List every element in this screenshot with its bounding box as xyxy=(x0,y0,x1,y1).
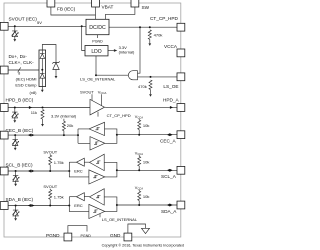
wires SCL right joins xyxy=(104,162,117,177)
svg-text:Copyright © 2016, Texas Instru: Copyright © 2016, Texas Instruments Inco… xyxy=(102,244,184,248)
direction arrows SCL_A xyxy=(167,169,170,172)
wire SCL_B xyxy=(8,170,69,172)
HDMI ESD clamp box U-clamp xyxy=(39,50,46,87)
ESD clamp D5 on SCL_B xyxy=(12,170,19,186)
pin SDA_A xyxy=(177,201,185,209)
pin LS_OE xyxy=(177,73,185,81)
pin VBAT xyxy=(92,0,100,7)
svg-text:GND: GND xyxy=(110,233,121,238)
svg-text:LS_OE_INTERNAL: LS_OE_INTERNAL xyxy=(80,76,116,81)
resistor 11k pulldown xyxy=(41,109,44,119)
wires SDA right joins xyxy=(104,197,117,212)
direction arrows CEC_B xyxy=(28,134,31,137)
svg-text:SDA_B (IEC): SDA_B (IEC) xyxy=(6,197,34,202)
buffer U9 SDA ERC xyxy=(76,193,84,201)
svg-text:SCL_A: SCL_A xyxy=(161,174,177,179)
ESD clamp D3 on HPD_B xyxy=(12,107,19,123)
svg-text:VBAT: VBAT xyxy=(102,5,114,10)
svg-text:LDO: LDO xyxy=(91,49,101,55)
svg-text:DC/DC: DC/DC xyxy=(89,25,106,31)
block DC/DC xyxy=(86,19,109,34)
wire SDA_A xyxy=(117,204,177,206)
pin CEC_A xyxy=(177,131,185,139)
svg-text:CT_CP_HPD: CT_CP_HPD xyxy=(150,16,178,21)
wire HPD_B xyxy=(8,107,90,109)
direction arrows SCL_B xyxy=(28,170,31,173)
junction mid clamp xyxy=(41,69,43,71)
buffer U10 SDA A-to-B xyxy=(84,189,104,205)
svg-text:1.75k: 1.75k xyxy=(54,195,65,200)
zener D2 xyxy=(52,61,59,63)
riser CEC left xyxy=(77,134,79,136)
wire AND input from CT_CP_HPD rail xyxy=(138,27,141,73)
buffer U5 CEC B-to-A xyxy=(78,137,105,150)
buffer U4 CEC A-to-B xyxy=(78,122,105,135)
wire GND to ground xyxy=(128,224,146,233)
pin FB (IEC) xyxy=(47,0,55,7)
wire AND input from LS_OE pin xyxy=(138,76,178,78)
svg-text:VCCA: VCCA xyxy=(98,89,107,95)
svg-text:PGND: PGND xyxy=(46,233,60,238)
wires CEC right joins xyxy=(105,129,117,143)
buffer U7 SCL A-to-B xyxy=(84,154,104,170)
diode top in clamp xyxy=(40,50,45,54)
svg-text:CEC_A: CEC_A xyxy=(160,138,177,143)
svg-text:470k: 470k xyxy=(154,32,164,37)
ESD clamp D6 on SDA_B xyxy=(12,205,19,221)
wire CT_CP_HPD rail xyxy=(109,26,177,28)
svg-text:ERC: ERC xyxy=(74,203,83,208)
riser SDA left xyxy=(68,205,70,207)
svg-text:ESD Clamp: ESD Clamp xyxy=(15,82,37,87)
diode bottom in clamp xyxy=(40,70,45,74)
direction arrow HPD_A xyxy=(170,106,173,109)
svg-text:1.75k: 1.75k xyxy=(54,160,65,165)
svg-text:CLK+, CLK-: CLK+, CLK- xyxy=(9,60,35,65)
svg-text:HPD_A: HPD_A xyxy=(163,98,180,103)
junction 20k xyxy=(63,134,65,136)
resistor 470k LS_OE xyxy=(149,80,152,90)
wire HPD_A xyxy=(105,106,178,108)
svg-text:PGND: PGND xyxy=(92,40,103,44)
pin SW xyxy=(131,0,139,7)
svg-text:SW: SW xyxy=(142,5,150,10)
svg-text:10k: 10k xyxy=(143,194,151,199)
node LS_OE_INTERNAL xyxy=(95,74,97,76)
direction arrows SDA_A xyxy=(167,204,170,207)
svg-text:(IEC) HDMI: (IEC) HDMI xyxy=(16,77,37,82)
svg-text:SCL_B (IEC): SCL_B (IEC) xyxy=(6,163,34,168)
block LDO xyxy=(85,46,108,56)
svg-text:SVOUT: SVOUT xyxy=(43,149,57,154)
svg-text:11k: 11k xyxy=(31,110,38,115)
pin SCL_A xyxy=(177,166,185,174)
direction arrows CEC_A xyxy=(167,133,170,136)
junction LS_OE pulldown xyxy=(150,76,152,78)
direction arrows SDA_B xyxy=(28,204,31,207)
svg-text:LS_OE_INTERNAL: LS_OE_INTERNAL xyxy=(102,217,138,222)
svg-text:PGND: PGND xyxy=(81,234,92,238)
svg-text:(x8): (x8) xyxy=(30,90,38,95)
svg-text:20k: 20k xyxy=(67,123,75,128)
svg-text:470k: 470k xyxy=(138,84,148,89)
svg-text:SVOUT: SVOUT xyxy=(80,89,94,94)
svg-text:SVOUT (IEC): SVOUT (IEC) xyxy=(9,16,38,21)
AND gate U2 (points left) xyxy=(128,71,137,80)
wire SW to DC/DC xyxy=(105,7,134,19)
enable stub CT_CP_HPD xyxy=(97,112,99,117)
buffer U3 HPD xyxy=(90,99,105,115)
buffer U11 SDA B-to-A xyxy=(89,204,105,218)
wire 5V to LDO xyxy=(82,26,85,50)
net stub PGND under DC/DC xyxy=(97,35,99,38)
svg-text:CEC_B (IEC): CEC_B (IEC) xyxy=(6,128,34,133)
wire clamp top to zener xyxy=(42,45,56,63)
svg-text:CT_CP_HPD: CT_CP_HPD xyxy=(107,113,131,118)
riser SCL left xyxy=(68,170,70,172)
wire FB to VBAT rail xyxy=(51,7,96,15)
wire CEC_A xyxy=(117,134,177,136)
wire VBAT to DC/DC xyxy=(95,7,97,19)
svg-text:FB (IEC): FB (IEC) xyxy=(57,6,76,11)
resistor 470k CT_CP_HPD xyxy=(148,30,151,40)
bus slash 8 xyxy=(18,67,21,72)
buffer U8 SCL B-to-A xyxy=(89,170,105,184)
direction arrow HPD_B xyxy=(29,106,32,109)
svg-text:SDA_A: SDA_A xyxy=(161,209,177,214)
buffer U6 SCL ERC xyxy=(76,158,84,166)
wire SDA_B xyxy=(8,205,69,207)
IC boundary xyxy=(4,3,181,237)
svg-text:ERC: ERC xyxy=(74,169,83,174)
junction 11k xyxy=(42,107,44,109)
wire CEC_B xyxy=(8,134,78,136)
wire 3.3V internal output arrow xyxy=(108,50,115,52)
wire Dx bus xyxy=(8,69,42,71)
wire LS_OE_INTERNAL to AND gate xyxy=(96,74,128,76)
junction to LDO feed xyxy=(81,25,83,27)
ESD clamp D4 on CEC_B xyxy=(12,134,19,150)
svg-text:10k: 10k xyxy=(143,159,151,164)
wire 5V rail xyxy=(8,25,86,27)
wire PGND stub xyxy=(68,226,87,234)
svg-text:SVOUT: SVOUT xyxy=(43,184,57,189)
wire LDO to LS_OE_INTERNAL node xyxy=(95,56,97,75)
svg-text:(internal): (internal) xyxy=(119,50,135,55)
enable stub LS_OE_INTERNAL xyxy=(99,214,101,218)
svg-text:LS_OE: LS_OE xyxy=(163,84,178,89)
svg-text:Dx+, Dx-: Dx+, Dx- xyxy=(9,54,28,59)
ESD clamp D1 on SVOUT xyxy=(12,25,19,41)
svg-text:8: 8 xyxy=(18,72,20,76)
svg-text:3.3V (internal): 3.3V (internal) xyxy=(51,114,77,119)
ground symbol xyxy=(142,228,150,233)
svg-text:HPD_B (IEC): HPD_B (IEC) xyxy=(6,98,34,103)
svg-text:5V: 5V xyxy=(37,20,42,25)
svg-text:10k: 10k xyxy=(143,123,151,128)
ground arrow under clamp box xyxy=(41,87,43,90)
wire SCL_A xyxy=(117,169,177,171)
svg-text:VCCA: VCCA xyxy=(164,44,178,49)
